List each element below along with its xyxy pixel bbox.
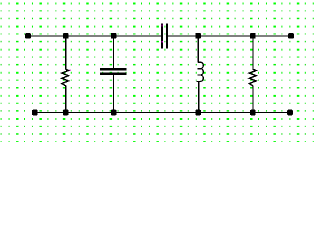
wire bottom rail <box>35 112 290 113</box>
wire R2 lower lead <box>252 86 253 113</box>
node bottom rail / C1 <box>111 110 117 116</box>
node bottom-right terminal <box>287 110 293 116</box>
wire top rail right segment <box>168 35 291 36</box>
wire R2 upper lead <box>252 36 253 70</box>
node top-left terminal <box>25 33 31 39</box>
wire top rail left segment <box>28 35 161 36</box>
node top rail / L1 <box>195 33 201 39</box>
resistor R2 <box>249 69 256 86</box>
wire C1 upper lead <box>113 36 114 68</box>
node top rail / C1 <box>111 33 117 39</box>
node top-right terminal <box>288 33 294 39</box>
capacitor C1 <box>100 68 126 75</box>
inductor L1 <box>196 62 203 81</box>
node top rail / R1 <box>63 33 69 39</box>
node top rail / R2 <box>250 33 256 39</box>
node bottom rail / R2 <box>250 110 256 116</box>
node bottom-left terminal <box>32 110 38 116</box>
wire C1 lower lead <box>113 75 114 113</box>
resistor R1 <box>62 69 71 86</box>
node bottom rail / R1 <box>63 110 69 116</box>
wire R1 lower lead <box>65 86 66 113</box>
wire R1 upper lead <box>65 36 66 70</box>
capacitor C2 <box>161 24 168 49</box>
wire L1 lower lead <box>198 81 199 112</box>
wire L1 upper lead <box>198 36 199 63</box>
node bottom rail / L1 <box>195 110 201 116</box>
